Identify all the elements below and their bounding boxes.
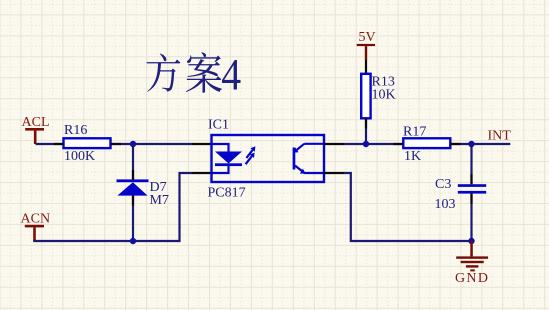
optocoupler IC1 (208, 118, 325, 201)
wire R13 down to node (365, 118, 367, 144)
svg-text:100K: 100K (64, 149, 95, 164)
capacitor C3 (435, 177, 487, 212)
pin IC1 anode (pin 1) (192, 143, 212, 145)
wire R16 to IC1 anode pin (111, 143, 193, 145)
resistor R16 (64, 123, 111, 164)
svg-text:ACN: ACN (21, 211, 51, 226)
wire 5V to R13 (365, 60, 367, 74)
power 5V (357, 30, 376, 60)
resistor R17 (403, 125, 450, 164)
junction node R17/C3 (468, 141, 474, 147)
wire ACN to riser (33, 173, 192, 241)
svg-text:GND: GND (455, 271, 489, 286)
pin IC1 cathode (pin 2) (192, 172, 212, 174)
port ACN (21, 211, 51, 241)
pin IC1 collector (pin 4) (324, 143, 344, 145)
wire R17 to INT (450, 143, 510, 145)
junction node D7/ACN (130, 238, 136, 244)
svg-text:5V: 5V (359, 30, 376, 45)
pin R17 left (394, 143, 404, 145)
svg-text:R16: R16 (64, 123, 87, 138)
wire collector node to R17 (344, 143, 403, 145)
svg-text:C3: C3 (435, 177, 451, 192)
svg-text:103: 103 (435, 197, 456, 212)
wire emitter to ground node (344, 173, 472, 241)
wire node down to C3 (470, 144, 472, 184)
resistor R13 (361, 74, 395, 119)
svg-text:ACL: ACL (22, 115, 50, 130)
LED light arrows (246, 146, 256, 164)
svg-text:10K: 10K (372, 88, 396, 103)
svg-text:PC817: PC817 (208, 186, 246, 201)
wire ACL to R16 (36, 143, 64, 145)
junction node at R16/D7 (130, 141, 136, 147)
ground (455, 241, 489, 286)
diode D7 (117, 179, 169, 208)
junction node C3/GND (468, 238, 474, 244)
pin D7 bottom (132, 196, 134, 206)
pin R17 right (450, 143, 460, 145)
LED inside IC1 (212, 144, 243, 173)
svg-text:1K: 1K (404, 149, 421, 164)
svg-text:INT: INT (488, 128, 512, 143)
pin C3 bottom (470, 194, 472, 204)
port ACL (22, 115, 50, 144)
wire C3 down to ground node (470, 194, 472, 241)
svg-text:IC1: IC1 (208, 118, 229, 133)
phototransistor inside IC1 (293, 144, 324, 174)
title 方案4 (147, 52, 241, 92)
pin R16 left (54, 143, 64, 145)
pin C3 top (470, 174, 472, 184)
svg-text:M7: M7 (150, 193, 169, 208)
pin R16 right (111, 143, 122, 145)
pin D7 top (132, 170, 134, 179)
pin IC1 emitter (pin 3) (324, 172, 344, 174)
svg-text:R17: R17 (403, 125, 426, 140)
wire D7 anode down to ACN line (132, 196, 134, 241)
pin R13 bottom (365, 118, 367, 128)
wire junction down to D7 cathode (132, 144, 134, 180)
junction node R13/R17 (363, 141, 369, 147)
